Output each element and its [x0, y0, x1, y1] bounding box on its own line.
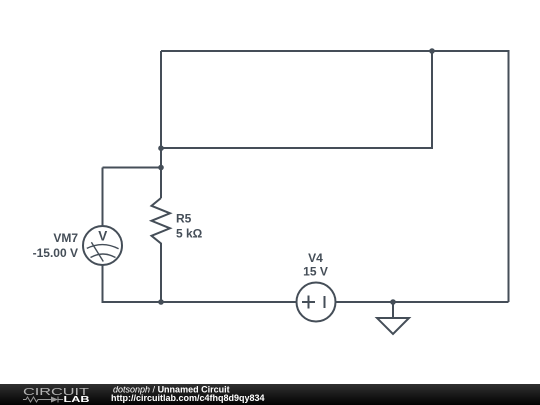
svg-text:VM7: VM7 — [53, 231, 78, 245]
svg-text:R5: R5 — [176, 212, 192, 226]
svg-text:5 kΩ: 5 kΩ — [176, 227, 203, 241]
svg-text:-15.00 V: -15.00 V — [33, 246, 78, 260]
svg-text:LAB: LAB — [64, 395, 91, 404]
svg-text:http://circuitlab.com/c4fhq8d9: http://circuitlab.com/c4fhq8d9qy834 — [111, 393, 265, 403]
svg-text:V4: V4 — [308, 251, 323, 265]
svg-text:V: V — [98, 228, 107, 243]
svg-text:15 V: 15 V — [303, 265, 328, 279]
